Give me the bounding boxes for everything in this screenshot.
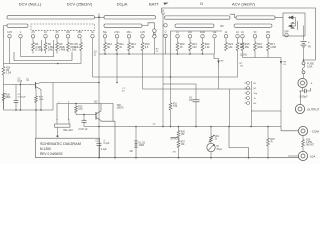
wire to COM bbox=[281, 130, 298, 132]
svg-text:Ω: Ω bbox=[94, 52, 96, 56]
resistor R21 140 bbox=[189, 38, 191, 43]
svg-text:BZ: BZ bbox=[220, 25, 224, 28]
arrow marker top bbox=[163, 3, 168, 5]
wire pot down bbox=[57, 127, 59, 136]
svg-text:10A: 10A bbox=[310, 155, 315, 159]
capacitor C4 0.047uF bbox=[83, 115, 85, 121]
svg-text:DCV (25kΩ/V): DCV (25kΩ/V) bbox=[67, 1, 93, 6]
resistor R11 1k bbox=[116, 38, 118, 43]
svg-text:100: 100 bbox=[66, 31, 71, 34]
resistor R24 10k bbox=[237, 38, 239, 43]
svg-text:x10: x10 bbox=[188, 31, 193, 34]
jack COM bbox=[298, 126, 307, 135]
wire battery column bbox=[303, 26, 305, 41]
wire dashed box stub b bbox=[53, 40, 55, 52]
resistor R10 9k bbox=[104, 38, 106, 43]
resistor R1 3.3M bbox=[32, 38, 34, 43]
resistor R16 360k bbox=[254, 38, 256, 43]
svg-text:LX: LX bbox=[162, 13, 165, 16]
wire battery to fuse node bbox=[303, 48, 305, 62]
switch wafer bar D bbox=[236, 16, 275, 19]
svg-text:- COM: - COM bbox=[310, 130, 319, 134]
wire junction bar vertical x99 bbox=[98, 21, 100, 54]
svg-text:OFF: OFF bbox=[284, 31, 289, 34]
wire fuse to plus jack bbox=[303, 74, 305, 78]
svg-text:ACV (9kΩ/V): ACV (9kΩ/V) bbox=[232, 1, 256, 6]
svg-text:SCHEMATIC DIAGRAM: SCHEMATIC DIAGRAM bbox=[40, 142, 81, 146]
svg-text:250: 250 bbox=[266, 31, 271, 34]
svg-text:(1M): (1M) bbox=[48, 48, 53, 52]
wire down to title block corner bbox=[35, 110, 37, 138]
svg-text:OUTPUT: OUTPUT bbox=[307, 108, 320, 112]
svg-text:360k: 360k bbox=[257, 45, 263, 49]
resistor R5 40k bbox=[80, 38, 82, 43]
svg-text:0.25: 0.25 bbox=[140, 31, 145, 34]
svg-text:2Φ: 2Φ bbox=[130, 150, 133, 153]
wire ladder U1 bbox=[21, 52, 54, 57]
svg-text:2SB75: 2SB75 bbox=[117, 108, 125, 110]
svg-text:2.2M: 2.2M bbox=[6, 73, 11, 75]
svg-text:Q2: Q2 bbox=[94, 99, 98, 103]
jack OUTPUT bbox=[295, 104, 304, 113]
resistor R19 shunt bbox=[302, 136, 304, 140]
wire bus y77 bbox=[93, 76, 238, 78]
svg-text:40k: 40k bbox=[75, 45, 80, 49]
resistor R17 1.8M bbox=[267, 38, 269, 43]
svg-text:REV 0 04/06/92: REV 0 04/06/92 bbox=[40, 152, 63, 156]
wire from bar SB right bbox=[142, 23, 154, 29]
svg-text:0.047μF: 0.047μF bbox=[18, 96, 27, 98]
resistor R12 95 bbox=[128, 38, 130, 43]
box ohm section enclosure bbox=[162, 8, 316, 60]
diode D5 bbox=[288, 16, 296, 19]
svg-text:1.4k: 1.4k bbox=[205, 45, 211, 49]
wire link bar C to bar D bbox=[230, 14, 236, 17]
resistor R22 1.4k bbox=[202, 38, 204, 43]
svg-text:0.5A: 0.5A bbox=[307, 64, 313, 68]
wire junction between bar A and bar B bbox=[95, 16, 105, 18]
arrow hooks near OFF bbox=[290, 22, 295, 23]
resistor R23 14k bbox=[225, 38, 227, 43]
resistor R30 bbox=[75, 104, 77, 107]
svg-text:(1.5V): (1.5V) bbox=[240, 53, 247, 57]
svg-text:x100: x100 bbox=[200, 31, 206, 34]
wire Q1 emitter down bbox=[40, 90, 42, 111]
wire plus jack to cap bbox=[302, 88, 304, 91]
fuse F1 bbox=[302, 62, 305, 65]
resistor R29 150k bbox=[35, 89, 37, 97]
meter branch resistors bbox=[178, 127, 180, 131]
wire x281 down bbox=[280, 58, 282, 131]
capacitor C9 0.05uF bbox=[299, 90, 305, 92]
battery BT1 9V bbox=[301, 41, 307, 43]
switch wafer bar B bbox=[104, 16, 156, 19]
diodes D1 D2 bbox=[135, 127, 137, 141]
wire bus left y63 bbox=[4, 63, 82, 65]
wire cap to output jack bbox=[300, 91, 302, 104]
svg-text:DCV (NULL): DCV (NULL) bbox=[19, 1, 42, 6]
svg-text:14k: 14k bbox=[228, 45, 233, 49]
svg-text:0.1μF: 0.1μF bbox=[101, 149, 108, 151]
wire bottom left sub bus bbox=[4, 109, 54, 111]
resistor R2 1.5M bbox=[45, 38, 47, 43]
wire dashed box stub a bbox=[41, 40, 43, 52]
svg-text:+: + bbox=[308, 40, 310, 44]
wire bus P y126.5 bbox=[84, 126, 281, 128]
jack 10A bbox=[298, 151, 307, 160]
svg-text:0.25: 0.25 bbox=[7, 31, 12, 34]
resistor R3 600k bbox=[56, 38, 58, 43]
wire ladder U2 bbox=[14, 52, 72, 61]
switch wafer bar SB bbox=[104, 24, 142, 27]
wire x229.5 down bbox=[229, 89, 231, 127]
capacitor C6 bbox=[195, 84, 197, 100]
svg-text:+: + bbox=[311, 82, 313, 86]
svg-text:(.4M): (.4M) bbox=[59, 48, 65, 52]
svg-text:Ω: Ω bbox=[165, 31, 167, 34]
svg-text:0.1μF: 0.1μF bbox=[104, 143, 111, 145]
svg-text:Q1: Q1 bbox=[26, 78, 30, 82]
svg-text:M: M bbox=[217, 144, 219, 148]
box ohm inner bbox=[171, 31, 223, 77]
wire bus jog and arrow bbox=[214, 54, 219, 68]
svg-text:2.5m: 2.5m bbox=[114, 31, 119, 34]
svg-text:(M ADJ): (M ADJ) bbox=[171, 138, 180, 141]
svg-text:DCμA: DCμA bbox=[117, 1, 128, 6]
resistor R31 7.5k bbox=[170, 77, 172, 103]
wire ohm contact left down bbox=[165, 38, 167, 55]
svg-text:Ω: Ω bbox=[200, 2, 203, 6]
resistor R28 680k bbox=[2, 93, 5, 101]
transistor Q1 bbox=[35, 82, 37, 89]
svg-text:1N60: 1N60 bbox=[139, 145, 145, 147]
switch wafer bar SD bbox=[234, 24, 272, 27]
wire contact 1 down bbox=[20, 38, 22, 57]
svg-text:9V: 9V bbox=[308, 46, 311, 49]
svg-text:0.05: 0.05 bbox=[18, 81, 23, 83]
switch wafer bar SA (DCV null) bbox=[7, 24, 28, 27]
wire contact 0.25 down bbox=[9, 38, 11, 64]
svg-text:250: 250 bbox=[78, 31, 83, 34]
switch wafer bar A bbox=[7, 16, 95, 19]
wire acv bus bbox=[243, 57, 282, 59]
contact column right of center bbox=[247, 82, 250, 85]
wire shunt to 10A jack bbox=[302, 147, 304, 151]
wire step y147.5 bbox=[229, 127, 249, 158]
resistor R15 36k bbox=[242, 38, 244, 43]
diode D5 box top right bbox=[283, 13, 305, 36]
trimmer VR1 bbox=[210, 127, 212, 137]
wire branch x20.5 bbox=[20, 85, 22, 111]
wire from bar SA left to left rail bbox=[4, 26, 8, 38]
resistor R13 9.5 bbox=[142, 38, 144, 43]
wire base Q2 bbox=[76, 114, 96, 116]
wire collector bus y82.5 bbox=[41, 82, 99, 84]
capacitor C3 0.047uF bbox=[15, 85, 17, 101]
svg-text:140: 140 bbox=[192, 45, 197, 49]
wire bottom bus into 10A bbox=[288, 155, 298, 157]
resistor R25 2.2M bbox=[3, 38, 5, 67]
wire crossings below bus bbox=[116, 54, 118, 83]
dashed selector box bbox=[31, 24, 95, 30]
switch pointer arrow bbox=[295, 18, 297, 27]
wire outer box left edge down bbox=[162, 14, 164, 127]
resistor R20 15 bbox=[177, 38, 179, 43]
wire bus bottom y157.7 bbox=[100, 157, 299, 159]
title block box bbox=[36, 138, 100, 158]
svg-text:36k: 36k bbox=[245, 45, 250, 49]
wire bus y89 bbox=[143, 88, 252, 90]
svg-text:680k: 680k bbox=[6, 97, 12, 99]
resistor R18 7k bbox=[267, 126, 269, 128]
switch wafer bar C bbox=[165, 16, 231, 19]
meter M bbox=[210, 142, 212, 144]
svg-text:0.05μF: 0.05μF bbox=[300, 95, 309, 99]
svg-text:BATT: BATT bbox=[149, 1, 159, 6]
wire base bus y84.5 bbox=[4, 84, 36, 86]
svg-text:50μA: 50μA bbox=[217, 148, 223, 151]
stub a bbox=[68, 104, 70, 121]
wire bus y54 bbox=[99, 53, 214, 55]
svg-text:0.047 μF: 0.047 μF bbox=[79, 129, 89, 131]
svg-text:9.5: 9.5 bbox=[145, 45, 149, 49]
switch wafer bar SC bbox=[175, 24, 214, 27]
svg-text:1.8M: 1.8M bbox=[270, 45, 276, 49]
svg-text:BAL.ADJ: BAL.ADJ bbox=[64, 129, 73, 132]
svg-text:25m: 25m bbox=[127, 31, 132, 34]
wire x218.5 to bus y89 bbox=[218, 68, 220, 89]
resistor R4 150k bbox=[67, 38, 69, 43]
wire x99 down with cap C5 bbox=[98, 54, 100, 143]
wire bar D to diode box bbox=[275, 17, 283, 19]
wire R24 down to bus y77 bbox=[237, 51, 239, 78]
potentiometer BAL ADJ bbox=[55, 124, 71, 127]
box center bbox=[57, 104, 113, 122]
wire contact 1k down bbox=[92, 38, 94, 77]
svg-text:SHUNT: SHUNT bbox=[306, 145, 315, 147]
wire y84 segment to C6 bbox=[163, 83, 196, 85]
svg-text:50μ: 50μ bbox=[103, 31, 108, 34]
contact BATT tap upper bbox=[153, 29, 156, 32]
wire contact batt tap down bbox=[153, 38, 155, 54]
wire ohm x1k down bbox=[214, 38, 216, 54]
wire y111 feed bbox=[251, 110, 281, 112]
svg-text:M-1350: M-1350 bbox=[40, 147, 51, 151]
jack plus bbox=[298, 78, 307, 87]
contact ohm top stack bbox=[164, 24, 167, 27]
wire x53 branch bbox=[52, 83, 54, 111]
wire emitter return bbox=[101, 121, 115, 157]
